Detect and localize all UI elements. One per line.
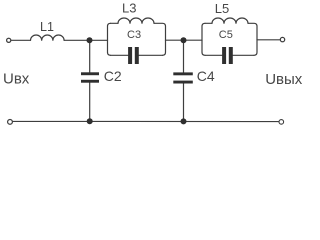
tank1 left vertical bbox=[108, 23, 111, 52]
bottom right terminal bbox=[279, 120, 284, 125]
svg-text:C5: C5 bbox=[219, 29, 233, 41]
wire C2 to bottom rail bbox=[89, 83, 91, 121]
wire tank2 to output bbox=[257, 39, 280, 41]
bottom left terminal bbox=[8, 120, 13, 125]
bottom rail junction dot at C4 bbox=[181, 118, 187, 124]
svg-text:C2: C2 bbox=[104, 68, 122, 84]
output terminal (top right) bbox=[280, 37, 284, 41]
wire C4 to bottom rail bbox=[183, 84, 185, 121]
wire tank1 to node B bbox=[166, 39, 184, 41]
inductor L5 bbox=[212, 18, 248, 23]
wire input to L1 bbox=[11, 39, 30, 41]
wire node B to tank2 bbox=[184, 39, 203, 41]
wire L1 to node A bbox=[64, 39, 89, 41]
tank1 top branch right bbox=[154, 23, 166, 55]
tank2 top branch left bbox=[205, 22, 212, 24]
svg-text:L5: L5 bbox=[215, 1, 229, 16]
inductor L3 bbox=[118, 18, 154, 23]
capacitor C2 plates bbox=[81, 72, 99, 75]
node B junction dot bbox=[181, 37, 187, 43]
svg-text:C3: C3 bbox=[127, 29, 141, 41]
svg-text:L3: L3 bbox=[122, 1, 136, 16]
tank1 bottom branch right bbox=[139, 54, 163, 56]
wire from node A down to C2 bbox=[89, 40, 91, 72]
capacitor C5 plates bbox=[222, 47, 226, 64]
tank1 top branch left bbox=[111, 22, 119, 24]
wire node A to tank1 bbox=[90, 39, 108, 41]
capacitor C4 plates bbox=[173, 72, 193, 75]
node A junction dot bbox=[87, 37, 93, 43]
bottom rail junction dot at C2 bbox=[87, 118, 93, 124]
tank2 top branch right bbox=[248, 23, 257, 55]
tank2 bottom branch right bbox=[233, 54, 254, 56]
inductor L1 bbox=[31, 35, 65, 40]
wire from node B down to C4 bbox=[183, 40, 185, 72]
tank2 left vertical bbox=[202, 23, 205, 52]
svg-text:L1: L1 bbox=[40, 20, 54, 34]
svg-text:C4: C4 bbox=[197, 68, 215, 84]
tank2 bottom branch left bbox=[205, 54, 222, 56]
bottom rail wire bbox=[13, 120, 279, 122]
tank1 bottom branch left bbox=[111, 54, 129, 56]
input terminal (top left) bbox=[7, 38, 11, 42]
capacitor C3 plates bbox=[128, 47, 132, 64]
svg-text:Uвх: Uвх bbox=[3, 70, 30, 87]
svg-text:Uвых: Uвых bbox=[265, 71, 303, 88]
